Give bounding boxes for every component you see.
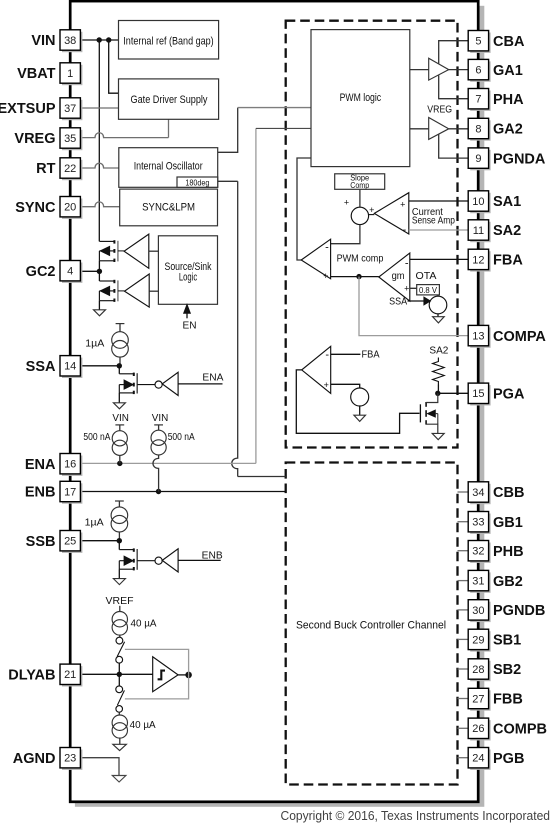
wire PGA comparator output to FET gate: [296, 370, 419, 433]
pin 26 COMPB: [458, 727, 469, 729]
transistor upper GC2 FET: [113, 240, 115, 243]
current source 1uA SSB top bar: [115, 500, 124, 502]
svg-text:PWM logic: PWM logic: [340, 92, 382, 104]
current source 1uA SSA top bar: [116, 323, 125, 325]
svg-text:PWM comp: PWM comp: [337, 253, 384, 264]
pin 9 PGNDA: [470, 150, 490, 170]
hysteresis symbol: [158, 671, 165, 680]
svg-text:FBA: FBA: [493, 253, 523, 269]
inverter bubble SSA: [155, 381, 162, 388]
voltage ref 0.8V circle: [429, 296, 447, 314]
wire VIN net to Gate Driver Supply: [109, 40, 119, 93]
svg-text:COMPB: COMPB: [493, 722, 547, 738]
wire GC2 node to upper FET: [98, 261, 100, 272]
wire VREG pin to Gate Driver Supply bottom: [80, 133, 169, 138]
inverter ENB: [162, 549, 178, 572]
svg-text:SSA: SSA: [26, 359, 56, 375]
svg-text:RT: RT: [36, 161, 55, 177]
inverter bubble SSB: [155, 557, 162, 564]
svg-text:GB1: GB1: [493, 515, 523, 531]
svg-text:+: +: [344, 198, 349, 208]
node junction dot ENA / 500nA source: [117, 461, 122, 466]
svg-text:32: 32: [472, 546, 484, 558]
inverter ENA: [162, 372, 178, 395]
pin 33 GB1: [458, 521, 469, 523]
block Internal Oscillator: [119, 148, 218, 188]
svg-text:40 µA: 40 µA: [131, 619, 157, 630]
pin 17 ENB: [62, 483, 82, 503]
svg-text:+: +: [369, 205, 374, 215]
svg-text:10: 10: [472, 196, 484, 208]
svg-text:8: 8: [475, 123, 481, 135]
wire SSB pin to node: [80, 540, 119, 542]
pin 27 FBB: [458, 698, 469, 700]
svg-text:29: 29: [472, 634, 484, 646]
svg-text:13: 13: [472, 331, 484, 343]
wire GA1 output: [449, 69, 469, 71]
wire VIN net vertical to gate-drive FETs: [98, 40, 100, 241]
pin 16 ENA: [62, 456, 82, 476]
svg-text:Sense Amp: Sense Amp: [412, 215, 455, 226]
pin 21 DLYAB: [62, 666, 82, 686]
svg-text:+: +: [324, 380, 329, 390]
svg-text:SYNC: SYNC: [15, 200, 56, 216]
block PWM logic: [311, 30, 410, 167]
svg-text:34: 34: [472, 487, 484, 499]
transistor SSA discharge FET: [133, 373, 135, 376]
current source 500nA right: [151, 430, 166, 445]
current source 500nA left: [112, 431, 127, 446]
wire ENB pin to second channel: [80, 491, 286, 493]
wire gate to inverter bubble SSA: [137, 384, 155, 386]
svg-text:-: -: [403, 224, 407, 236]
op-amp Current Sense Amp: [374, 193, 409, 234]
pin 30 PGNDB: [458, 609, 469, 611]
current source 1uA SSB: [111, 507, 128, 524]
wire 0.8V ref to OTA plus: [410, 288, 438, 296]
buffer upper GC2 driver: [124, 234, 149, 268]
node junction dot buffer output: [185, 672, 192, 679]
op-amp PGA comparator: [302, 346, 331, 393]
wire GA2 output: [449, 128, 469, 130]
svg-text:31: 31: [472, 576, 484, 588]
svg-text:Second Buck Controller Channel: Second Buck Controller Channel: [296, 619, 446, 631]
wire ENA net to PWM logic: [255, 128, 257, 463]
ground 40uA lower: [113, 744, 127, 750]
buffer GA2 driver: [429, 118, 449, 140]
wire CBA: [439, 41, 469, 64]
svg-text:1: 1: [67, 68, 73, 80]
wire lower gate to buffer: [118, 290, 125, 292]
block Source/Sink Logic: [158, 236, 217, 304]
wire summing to PWM comp: [331, 225, 360, 244]
EN arrow into Source/Sink Logic: [186, 311, 188, 318]
svg-text:7: 7: [475, 94, 481, 106]
pin 22 RT: [62, 160, 82, 180]
node junction dot SSB: [117, 538, 122, 543]
wire upper gate to buffer: [118, 250, 124, 252]
svg-text:26: 26: [472, 723, 484, 735]
wire lower FET to ground: [98, 301, 100, 310]
pin 5 CBA: [470, 33, 490, 53]
switch upper contact b: [116, 656, 123, 663]
block 180deg: [177, 177, 218, 187]
svg-text:FBA: FBA: [362, 349, 380, 360]
svg-text:SYNC&LPM: SYNC&LPM: [142, 202, 195, 214]
wire SYNC pin to SYNC&LPM box: [80, 202, 120, 207]
svg-text:GC2: GC2: [26, 264, 56, 280]
wire FBA to OTA: [410, 258, 468, 260]
ground AGND: [112, 776, 126, 783]
svg-text:ENB: ENB: [202, 551, 223, 562]
block Gate Driver Supply: [119, 79, 219, 119]
svg-text:GA1: GA1: [493, 63, 523, 79]
pin 12 FBA: [470, 251, 490, 271]
svg-text:6: 6: [475, 65, 481, 77]
pin 34 CBB: [458, 491, 469, 493]
svg-text:VIN: VIN: [152, 413, 169, 424]
wire 40uA lower to ground: [119, 738, 121, 744]
svg-text:Copyright © 2016, Texas Instru: Copyright © 2016, Texas Instruments Inco…: [281, 808, 551, 823]
wire Slope Comp to summing node: [359, 189, 361, 207]
svg-text:180deg: 180deg: [185, 178, 209, 187]
wire SSB node down to FET: [118, 541, 120, 550]
pin 10 SA1: [470, 193, 490, 213]
pin 25 SSB: [62, 533, 82, 553]
pin 15 PGA: [470, 385, 490, 405]
wire switch to 40uA lower: [118, 712, 120, 715]
svg-text:Internal ref (Band gap): Internal ref (Band gap): [123, 35, 213, 47]
wire SSA arrow to ref: [408, 300, 425, 302]
ground 0.8V ref: [433, 317, 445, 323]
pin 35 VREG: [62, 130, 82, 150]
wire ENA pin run: [80, 462, 256, 464]
pin 23 AGND: [62, 750, 82, 770]
svg-text:VIN: VIN: [31, 33, 55, 49]
svg-text:SB2: SB2: [493, 662, 521, 678]
svg-text:SSA: SSA: [389, 296, 407, 307]
pin 24 PGB: [458, 757, 469, 759]
svg-text:DLYAB: DLYAB: [8, 668, 55, 684]
op-amp PWM comp: [301, 239, 330, 279]
block Slope Comp: [335, 174, 385, 190]
svg-text:35: 35: [64, 133, 76, 145]
svg-text:VREG: VREG: [14, 131, 55, 147]
wire ENB to inverter: [178, 559, 221, 561]
wire buffer output: [178, 674, 189, 676]
svg-text:CBA: CBA: [493, 34, 525, 50]
svg-text:-: -: [325, 349, 329, 361]
pin 6 GA1: [470, 61, 490, 81]
pin 28 SB2: [458, 668, 469, 670]
svg-text:5: 5: [475, 36, 481, 48]
switch upper lever: [117, 642, 124, 657]
wire upper buffer to Source/Sink Logic: [149, 250, 159, 252]
block 0.8V label box: [417, 285, 440, 295]
transistor PGA open-drain FET: [419, 404, 421, 422]
ground PGA FET: [432, 433, 444, 439]
svg-text:21: 21: [64, 669, 76, 681]
wire COMPA: [359, 277, 468, 336]
wire 180deg output to second channel: [218, 180, 238, 182]
wire 500nA left to ENA net: [119, 455, 121, 463]
node junction dot GC2: [97, 269, 102, 274]
pin 1 VBAT: [62, 65, 82, 85]
svg-text:-: -: [405, 258, 409, 270]
summing node circle: [351, 207, 368, 224]
svg-text:CBB: CBB: [493, 485, 524, 501]
wire SA1 to CSA: [409, 200, 468, 202]
node junction dot DLYAB: [117, 672, 122, 677]
svg-text:11: 11: [473, 225, 484, 237]
buffer lower GC2 driver: [125, 274, 150, 307]
wire DLYAB pin to buffer: [80, 673, 153, 675]
current source 40uA lower: [112, 715, 127, 730]
ground SSB FET: [113, 579, 125, 585]
svg-text:4: 4: [67, 266, 73, 278]
svg-text:1µA: 1µA: [85, 338, 104, 349]
wire RT pin to Internal Oscillator: [80, 163, 119, 168]
pin 4 GC2: [62, 263, 82, 283]
svg-text:SA2: SA2: [429, 346, 448, 357]
ground GC2 FET: [94, 310, 106, 316]
wire DLYAB node to lower switch: [118, 674, 120, 686]
svg-text:17: 17: [64, 486, 76, 498]
svg-text:27: 27: [472, 693, 484, 705]
svg-text:25: 25: [64, 536, 76, 548]
switch upper contact a: [116, 637, 123, 644]
svg-text:33: 33: [472, 517, 484, 529]
current source 1uA SSA: [112, 332, 129, 349]
wire Internal Oscillator to PWM logic: [218, 108, 238, 153]
svg-text:OTA: OTA: [416, 271, 437, 282]
wire 1uA source to SSB node: [118, 532, 120, 541]
wire 1uA source to SSA node: [119, 357, 121, 366]
first buck controller channel dashed box: [286, 21, 458, 448]
svg-text:+: +: [404, 283, 409, 293]
svg-text:28: 28: [472, 664, 484, 676]
hysteresis buffer DLYAB: [153, 657, 178, 692]
svg-text:9: 9: [475, 153, 481, 165]
wire plus input to threshold ref: [331, 384, 360, 388]
svg-text:PGNDA: PGNDA: [493, 151, 546, 167]
svg-text:AGND: AGND: [13, 751, 56, 767]
wire PWM logic to GA2 buffer: [410, 128, 429, 130]
IC body outline: [70, 1, 478, 802]
pin 31 GB2: [458, 580, 469, 582]
wire CSA output to summing: [369, 214, 375, 216]
wire SSA pin to node: [80, 365, 119, 367]
node junction dot on VIN net 2: [106, 37, 111, 42]
svg-text:23: 23: [64, 753, 76, 765]
svg-text:ENB: ENB: [25, 485, 56, 501]
svg-text:1µA: 1µA: [85, 517, 104, 528]
node junction dot SSA: [117, 363, 122, 368]
wire GC2 pin to FET node: [80, 270, 99, 272]
pin 7 PHA: [470, 91, 490, 111]
transistor SSB discharge FET: [133, 548, 135, 551]
switch lower contact b: [116, 706, 123, 713]
pin 11 SA2: [470, 222, 490, 242]
svg-text:COMPA: COMPA: [493, 329, 546, 345]
wire SSA node down to FET: [118, 366, 120, 374]
op-amp OTA error amplifier: [379, 253, 410, 301]
wire PGNDA: [439, 134, 469, 158]
wire 0.8V ref to ground: [437, 314, 439, 317]
svg-text:14: 14: [64, 361, 76, 373]
node junction dot ENB / 500nA source: [156, 489, 161, 494]
svg-text:500 nA: 500 nA: [83, 432, 110, 443]
ground threshold ref: [354, 415, 366, 421]
pin 13 COMPA: [470, 327, 490, 347]
pin 14 SSA: [62, 358, 82, 378]
svg-text:22: 22: [64, 163, 76, 175]
wire threshold ref to ground: [359, 406, 361, 415]
ground SSA FET: [113, 403, 125, 409]
pin 8 GA2: [470, 120, 490, 140]
wire gate to inverter bubble SSB: [137, 560, 155, 562]
wire VIN pin to Internal ref box: [80, 39, 119, 41]
node junction dot PGA: [435, 391, 440, 396]
svg-text:VREG: VREG: [427, 104, 452, 115]
svg-text:ENA: ENA: [25, 457, 56, 473]
svg-text:Comp: Comp: [350, 181, 369, 190]
pin 38 VIN: [62, 32, 82, 52]
pin 32 PHB: [458, 550, 469, 552]
svg-text:VBAT: VBAT: [17, 66, 56, 82]
svg-text:PHA: PHA: [493, 92, 524, 108]
wire ENA to inverter: [178, 383, 222, 385]
svg-text:+: +: [323, 271, 328, 281]
current source 500nA right top bar: [154, 424, 163, 426]
transistor lower GC2 FET: [113, 280, 115, 283]
wire 500nA right to ENB net: [153, 455, 159, 492]
svg-text:FBB: FBB: [493, 692, 523, 708]
svg-text:12: 12: [472, 254, 484, 266]
block Internal ref (Band gap): [119, 21, 219, 60]
svg-text:SSB: SSB: [26, 534, 56, 550]
svg-text:SA2: SA2: [493, 223, 521, 239]
current source 40uA upper: [112, 612, 127, 627]
svg-text:37: 37: [64, 103, 76, 115]
wire 40uA upper to switch: [119, 635, 121, 637]
svg-text:Internal Oscillator: Internal Oscillator: [134, 161, 203, 173]
svg-text:EN: EN: [183, 321, 197, 332]
svg-text:VIN: VIN: [112, 413, 129, 424]
wire SSA FET to ground: [118, 393, 120, 403]
IC body shadow: [75, 6, 484, 807]
svg-text:-: -: [325, 241, 329, 253]
svg-text:500 nA: 500 nA: [168, 432, 195, 443]
wire resistor to PGA node: [437, 385, 439, 394]
wire EXTSUP pin to Gate Driver Supply: [80, 107, 119, 109]
svg-text:SB1: SB1: [493, 633, 521, 649]
svg-text:VREF: VREF: [106, 596, 134, 607]
switch lower lever: [117, 690, 124, 705]
svg-text:gm: gm: [392, 271, 405, 282]
svg-text:GB2: GB2: [493, 574, 523, 590]
svg-text:30: 30: [472, 605, 484, 617]
current source 500nA left top bar: [115, 424, 124, 426]
wire PWM logic to GA1 buffer: [410, 69, 429, 71]
svg-text:PHB: PHB: [493, 544, 524, 560]
svg-text:PGA: PGA: [493, 387, 525, 403]
node junction dot COMP: [356, 274, 361, 279]
svg-text:15: 15: [472, 388, 484, 400]
wire OTA output to PWM comp plus: [331, 276, 379, 278]
wire switch to DLYAB node: [118, 663, 120, 674]
buffer GA1 driver: [429, 58, 449, 80]
svg-text:Gate Driver Supply: Gate Driver Supply: [131, 94, 208, 106]
block SYNC&LPM: [120, 189, 218, 226]
wire lower buffer to Source/Sink Logic: [149, 290, 158, 292]
wire SA2 to CSA: [409, 229, 468, 231]
wire FBA label stub: [331, 353, 361, 355]
pin 37 EXTSUP: [62, 100, 82, 120]
svg-text:38: 38: [64, 35, 76, 47]
wire AGND pin to ground: [80, 758, 119, 776]
threshold ref circle: [351, 388, 369, 406]
pin 29 SB1: [458, 638, 469, 640]
svg-text:SA1: SA1: [493, 194, 521, 210]
wire PHA: [439, 75, 469, 99]
svg-text:ENA: ENA: [202, 373, 223, 384]
wire SSB FET to ground: [118, 569, 120, 578]
pin 20 SYNC: [62, 199, 82, 219]
svg-text:+: +: [400, 200, 405, 210]
node junction dot on VIN net: [97, 37, 102, 42]
svg-text:EXTSUP: EXTSUP: [0, 101, 56, 117]
wire PWM comp output to PWM logic: [297, 158, 311, 260]
wire VREF stub: [119, 606, 121, 612]
wire PGA pin: [438, 392, 468, 394]
wire feedback to lower switch: [125, 675, 189, 699]
svg-text:PGNDB: PGNDB: [493, 603, 545, 619]
svg-text:0.8 V: 0.8 V: [419, 285, 437, 295]
switch lower contact a: [116, 686, 123, 693]
wire GC2 node to lower FET: [98, 271, 100, 281]
svg-text:16: 16: [64, 459, 76, 471]
resistor SA2: [433, 358, 445, 385]
svg-text:20: 20: [64, 202, 76, 214]
svg-text:40 µA: 40 µA: [130, 720, 156, 731]
svg-text:24: 24: [472, 753, 484, 765]
second buck controller channel dashed box: [286, 463, 458, 785]
svg-text:Logic: Logic: [179, 271, 198, 283]
wire feedback to upper switch: [125, 649, 189, 675]
svg-text:GA2: GA2: [493, 122, 523, 138]
svg-text:PGB: PGB: [493, 751, 524, 767]
